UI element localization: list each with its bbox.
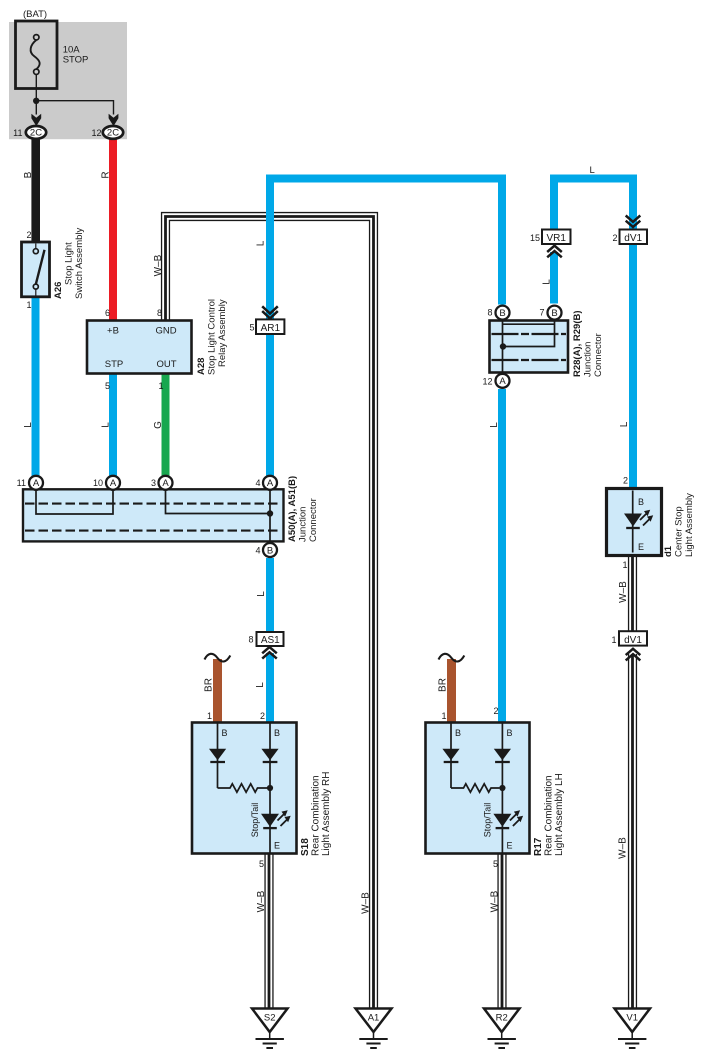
svg-text:1: 1 <box>207 711 212 721</box>
svg-text:W–B: W–B <box>490 890 501 912</box>
svg-text:d1: d1 <box>663 545 674 557</box>
svg-text:8: 8 <box>157 308 162 318</box>
svg-text:W–B: W–B <box>618 581 629 603</box>
svg-text:VR1: VR1 <box>546 233 566 244</box>
svg-text:L: L <box>542 279 553 285</box>
svg-text:10: 10 <box>93 478 103 488</box>
svg-text:Connector: Connector <box>308 498 319 542</box>
svg-text:2: 2 <box>493 706 498 716</box>
svg-text:L: L <box>23 422 34 428</box>
svg-text:Connector: Connector <box>593 333 604 377</box>
svg-text:Junction: Junction <box>298 507 309 542</box>
svg-text:A: A <box>33 478 40 489</box>
svg-text:1: 1 <box>26 300 31 310</box>
svg-text:5: 5 <box>249 323 254 333</box>
svg-text:BR: BR <box>204 678 215 692</box>
svg-text:8: 8 <box>487 308 492 318</box>
svg-text:1: 1 <box>441 711 446 721</box>
svg-text:L: L <box>489 422 500 428</box>
svg-text:STP: STP <box>105 359 123 370</box>
svg-text:A28: A28 <box>196 358 207 375</box>
svg-text:Light Assembly: Light Assembly <box>684 493 695 557</box>
svg-text:dV1: dV1 <box>624 635 642 646</box>
svg-text:A: A <box>162 478 169 489</box>
svg-text:3: 3 <box>151 478 156 488</box>
svg-text:B: B <box>222 728 228 738</box>
svg-text:Stop/Tail: Stop/Tail <box>482 803 492 838</box>
svg-text:4: 4 <box>255 478 260 488</box>
svg-text:V1: V1 <box>626 1013 638 1024</box>
svg-text:Rear Combination: Rear Combination <box>311 775 322 856</box>
svg-text:15: 15 <box>530 233 540 243</box>
svg-text:A50(A), A51(B): A50(A), A51(B) <box>287 476 298 542</box>
svg-text:5: 5 <box>493 859 498 869</box>
svg-text:GND: GND <box>155 326 176 337</box>
svg-text:12: 12 <box>482 377 492 387</box>
svg-text:1: 1 <box>622 560 627 570</box>
svg-text:12: 12 <box>91 128 101 138</box>
svg-text:Light Assembly LH: Light Assembly LH <box>554 773 565 856</box>
svg-text:Stop Light: Stop Light <box>64 242 75 285</box>
svg-text:L: L <box>619 421 630 427</box>
svg-text:AR1: AR1 <box>261 323 281 334</box>
svg-text:Relay Assembly: Relay Assembly <box>217 299 228 367</box>
svg-text:OUT: OUT <box>156 359 176 370</box>
svg-text:E: E <box>274 841 280 851</box>
svg-text:2: 2 <box>260 711 265 721</box>
svg-text:R2: R2 <box>496 1013 508 1024</box>
svg-text:Rear Combination: Rear Combination <box>544 775 555 856</box>
svg-text:W–B: W–B <box>618 837 629 859</box>
svg-text:Light Assembly RH: Light Assembly RH <box>321 772 332 856</box>
svg-text:B: B <box>267 545 273 556</box>
svg-text:2: 2 <box>612 233 617 243</box>
svg-text:Stop Light Control: Stop Light Control <box>207 299 218 375</box>
svg-text:W–B: W–B <box>153 254 164 276</box>
svg-text:2: 2 <box>26 230 31 240</box>
svg-text:+B: +B <box>107 326 119 337</box>
svg-text:1: 1 <box>158 381 163 391</box>
svg-text:2C: 2C <box>30 128 42 139</box>
svg-text:R28(A), R29(B): R28(A), R29(B) <box>572 310 583 377</box>
svg-text:5: 5 <box>259 859 264 869</box>
svg-text:7: 7 <box>539 308 544 318</box>
svg-text:A: A <box>110 478 117 489</box>
svg-text:B: B <box>23 171 34 178</box>
svg-text:B: B <box>507 728 513 738</box>
svg-text:Junction: Junction <box>583 342 594 377</box>
svg-text:L: L <box>590 165 595 176</box>
svg-text:S2: S2 <box>264 1013 276 1024</box>
svg-text:A1: A1 <box>368 1013 380 1024</box>
svg-text:6: 6 <box>105 308 110 318</box>
svg-text:A: A <box>499 376 506 387</box>
svg-text:dV1: dV1 <box>624 233 642 244</box>
svg-text:B: B <box>455 728 461 738</box>
svg-text:L: L <box>255 682 266 688</box>
svg-text:11: 11 <box>17 478 26 488</box>
svg-text:AS1: AS1 <box>261 635 280 646</box>
svg-text:Switch Assembly: Switch Assembly <box>74 227 85 299</box>
svg-text:G: G <box>153 421 164 429</box>
svg-text:S18: S18 <box>300 838 311 856</box>
svg-text:B: B <box>551 308 557 319</box>
svg-text:STOP: STOP <box>63 55 89 66</box>
svg-text:L: L <box>256 591 267 597</box>
svg-text:E: E <box>507 841 513 851</box>
svg-text:A26: A26 <box>53 282 64 299</box>
svg-text:W–B: W–B <box>361 892 372 914</box>
svg-text:B: B <box>638 497 644 507</box>
svg-text:1: 1 <box>611 635 616 645</box>
svg-text:W–B: W–B <box>256 890 267 912</box>
svg-text:R: R <box>101 171 112 178</box>
svg-text:BR: BR <box>438 678 449 692</box>
svg-text:A: A <box>267 478 274 489</box>
svg-text:B: B <box>499 308 505 319</box>
svg-text:Center Stop: Center Stop <box>674 506 685 557</box>
svg-text:(BAT): (BAT) <box>23 9 47 20</box>
svg-text:Stop/Tail: Stop/Tail <box>250 803 260 838</box>
svg-text:L: L <box>256 240 267 246</box>
svg-text:2C: 2C <box>107 128 119 139</box>
svg-text:R17: R17 <box>533 837 544 856</box>
svg-text:4: 4 <box>255 546 260 556</box>
svg-text:5: 5 <box>105 381 110 391</box>
svg-text:B: B <box>274 728 280 738</box>
svg-text:11: 11 <box>13 128 22 138</box>
svg-text:8: 8 <box>248 635 253 645</box>
svg-text:E: E <box>638 542 644 552</box>
svg-text:L: L <box>101 422 112 428</box>
svg-text:2: 2 <box>623 476 628 486</box>
